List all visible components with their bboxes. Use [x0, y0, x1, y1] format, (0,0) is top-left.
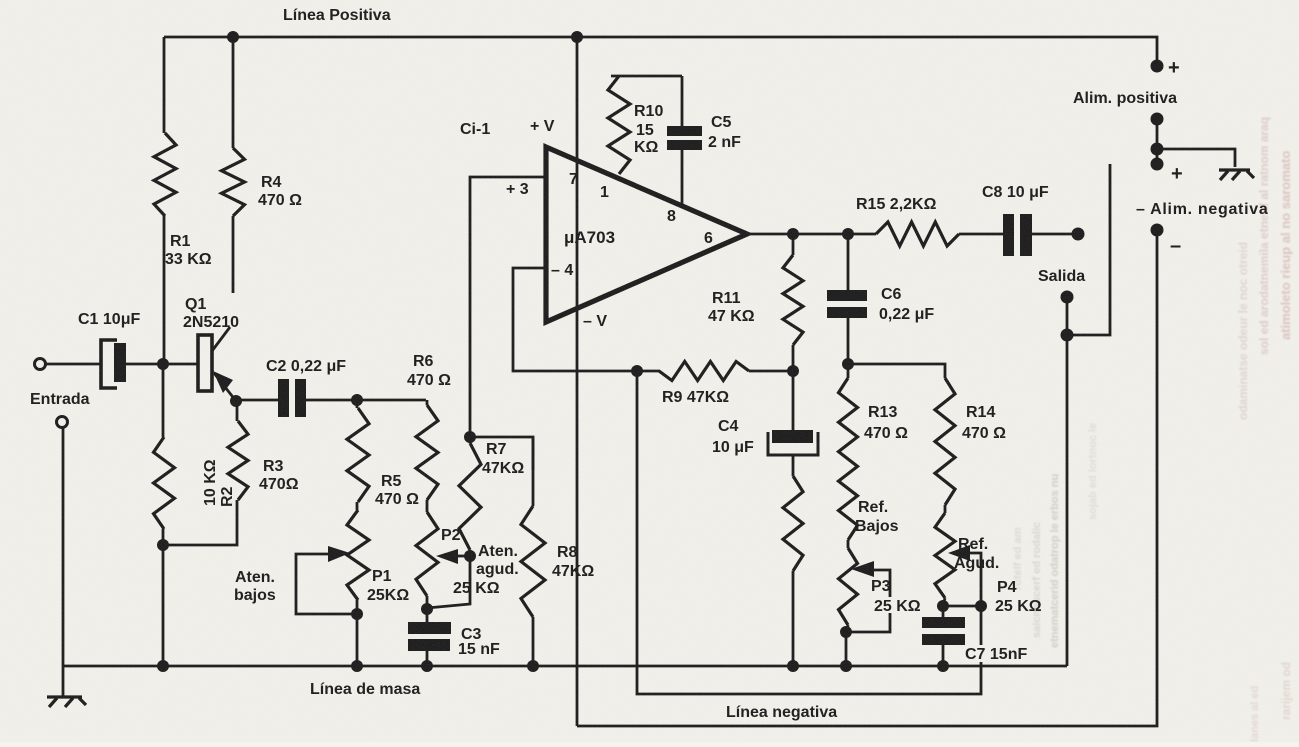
- resistor (below C4): [783, 476, 803, 666]
- label CI-1: [460, 121, 490, 138]
- node: C6/R13 junction: [842, 358, 854, 370]
- label Linea Positiva: [283, 7, 391, 24]
- label P3 value: [872, 597, 938, 615]
- label +V: [530, 118, 555, 135]
- wire: negative supply rail: [577, 230, 1157, 726]
- wire: Salida to supply branch: [1067, 164, 1110, 335]
- svg-text:2 nF: 2 nF: [708, 134, 741, 151]
- svg-text:Q1: Q1: [185, 296, 206, 313]
- svg-text:+: +: [1168, 57, 1180, 79]
- label R6: [407, 353, 451, 389]
- svg-text:R6: R6: [413, 353, 434, 370]
- svg-text:Salida: Salida: [1038, 268, 1085, 285]
- svg-text:R4: R4: [261, 174, 282, 191]
- svg-text:+ V: + V: [530, 118, 555, 135]
- node: R7/P2 wiper junction: [464, 550, 476, 562]
- label R1: [165, 233, 212, 268]
- node: masa/R8: [527, 660, 539, 672]
- label Aten. bajos: [234, 569, 276, 604]
- label R13: [864, 404, 908, 442]
- wire: +3 input (pin 3): [470, 177, 546, 437]
- wire: +V/-V supply line: [576, 37, 579, 726]
- svg-text:saicneucerf ed rodalic: saicneucerf ed rodalic: [1031, 522, 1043, 638]
- wire: negative feedback return (Linea negativa): [637, 371, 981, 694]
- node: P3 bottom junction: [840, 626, 852, 638]
- wire: -4 input (pin 4): [513, 268, 660, 371]
- resistor R3: [228, 401, 248, 500]
- wire: R7top-R8top link: [470, 437, 533, 470]
- label uA703: [564, 228, 615, 247]
- label P1: [367, 568, 409, 604]
- node: P4 wiper junction: [975, 600, 987, 612]
- resistor R2: [154, 364, 175, 666]
- resistor R5: [347, 400, 369, 502]
- svg-text:+: +: [1171, 163, 1183, 185]
- ground symbol (chassis): [1219, 170, 1254, 180]
- label -4: [551, 262, 573, 279]
- svg-text:470 Ω: 470 Ω: [962, 425, 1006, 442]
- svg-text:P1: P1: [372, 568, 392, 585]
- resistor R7: [459, 437, 481, 556]
- svg-text:C8 10 μF: C8 10 μF: [982, 184, 1049, 201]
- svg-text:C1 10μF: C1 10μF: [78, 311, 140, 328]
- svg-text:– V: – V: [583, 313, 607, 330]
- label R5: [375, 473, 419, 508]
- wire: positive supply segment: [1156, 119, 1159, 164]
- ground symbol (Entrada): [47, 697, 86, 707]
- resistor R9: [659, 362, 793, 381]
- node: P1 wiper tie: [351, 608, 363, 620]
- capacitor C8: [959, 214, 1078, 256]
- svg-text:R14: R14: [966, 404, 995, 421]
- label C2: [266, 358, 346, 375]
- svg-text:470 Ω: 470 Ω: [407, 372, 451, 389]
- svg-text:47KΩ: 47KΩ: [482, 460, 524, 477]
- node: output/C6 junction: [842, 228, 854, 240]
- label Entrada: [30, 391, 90, 408]
- node: R2/R3 junction: [157, 539, 169, 551]
- label R10: [634, 103, 663, 156]
- svg-text:Línea de masa: Línea de masa: [310, 681, 420, 698]
- svg-text:Ref.: Ref.: [858, 499, 888, 516]
- node: rail/+V junction: [571, 31, 583, 43]
- svg-text:0,22 μF: 0,22 μF: [879, 306, 934, 323]
- op-amp CI-1 uA703: [546, 147, 747, 322]
- label C1: [78, 311, 140, 328]
- svg-text:μA703: μA703: [564, 228, 615, 247]
- svg-text:10 μF: 10 μF: [712, 439, 754, 456]
- wire: R13-R14 top link: [848, 364, 945, 378]
- resistor R6: [416, 400, 438, 500]
- label + (positive top): [1168, 57, 1180, 79]
- resistor R1: [154, 37, 176, 364]
- svg-text:–: –: [1170, 235, 1181, 257]
- wire: to chassis ground: [1157, 149, 1235, 167]
- label Ref. Bajos: [855, 499, 899, 535]
- svg-text:470Ω: 470Ω: [259, 476, 299, 493]
- terminal: Alim. negativa -: [1151, 224, 1164, 237]
- potentiometer P1: [347, 502, 369, 666]
- wire: op-amp output: [747, 233, 876, 236]
- label R4: [258, 174, 302, 209]
- svg-text:sol ed arodatnemila etneuf al: sol ed arodatnemila etneuf al ratnom ara…: [1257, 117, 1271, 355]
- svg-text:33 KΩ: 33 KΩ: [165, 251, 212, 268]
- svg-text:Aten.: Aten.: [478, 543, 518, 560]
- svg-text:R10: R10: [634, 103, 663, 120]
- label R11: [708, 290, 755, 325]
- capacitor C6: [827, 234, 867, 364]
- wire: R14-P4 bottom link: [943, 605, 981, 608]
- potentiometer P4: [935, 505, 955, 606]
- node: Salida upper: [1061, 291, 1074, 304]
- resistor R4: [222, 37, 245, 293]
- P2 wiper arm: [436, 549, 470, 564]
- node: C2/R5 junction: [351, 394, 363, 406]
- input terminal (to C1): [35, 359, 102, 370]
- label pin6: [704, 230, 713, 247]
- svg-text:470 Ω: 470 Ω: [258, 192, 302, 209]
- transistor Q1 2N5210: [198, 327, 236, 401]
- svg-text:lanes al ed: lanes al ed: [1249, 686, 1261, 742]
- node: output/R11 junction: [787, 228, 799, 240]
- svg-text:+ 3: + 3: [506, 181, 529, 198]
- node: masa/R2: [157, 660, 169, 672]
- svg-text:C6: C6: [881, 286, 902, 303]
- svg-text:P3: P3: [871, 578, 891, 595]
- svg-text:Bajos: Bajos: [855, 518, 899, 535]
- svg-text:47KΩ: 47KΩ: [552, 563, 594, 580]
- label R2 (rotated): [202, 459, 236, 507]
- label P4: [997, 579, 1017, 596]
- svg-text:atimoleto rieup al no saromato: atimoleto rieup al no saromato: [1278, 151, 1293, 340]
- node: supply seg top: [1151, 113, 1164, 126]
- svg-text:25 KΩ: 25 KΩ: [995, 598, 1042, 615]
- label -V: [583, 313, 607, 330]
- capacitor C2: [236, 379, 426, 417]
- svg-text:rarijem od: rarijem od: [1279, 662, 1293, 720]
- node: supply seg low: [1151, 158, 1164, 171]
- label Linea de masa: [310, 681, 420, 698]
- terminal Entrada ground: [57, 417, 68, 428]
- svg-text:R5: R5: [381, 473, 402, 490]
- resistor R10: [608, 76, 682, 174]
- svg-text:R15 2,2KΩ: R15 2,2KΩ: [856, 196, 937, 213]
- label R15: [856, 196, 937, 213]
- svg-text:R11: R11: [712, 290, 741, 307]
- label pin1: [600, 184, 609, 201]
- resistor R8: [521, 437, 545, 666]
- label Ref. Agud.: [954, 536, 999, 572]
- capacitor C3: [408, 609, 451, 666]
- svg-text:470 Ω: 470 Ω: [375, 491, 419, 508]
- svg-text:bajos: bajos: [234, 587, 276, 604]
- label - (negative): [1170, 235, 1181, 257]
- svg-text:odaminatse odeur le noc otreid: odaminatse odeur le noc otreid: [1236, 242, 1250, 420]
- P3 wiper arm: [847, 561, 890, 632]
- label P4 value: [995, 598, 1042, 615]
- node: rail/R4 junction: [227, 31, 239, 43]
- label pin8: [667, 208, 676, 225]
- label Q1: [183, 296, 239, 331]
- node: R14 bottom junction: [937, 600, 949, 612]
- svg-text:C5: C5: [711, 114, 732, 131]
- label Linea negativa: [726, 704, 837, 721]
- svg-text:15: 15: [636, 122, 654, 139]
- svg-text:KΩ: KΩ: [634, 139, 659, 156]
- label Alim. positiva: [1073, 90, 1177, 107]
- label C8: [982, 184, 1049, 201]
- svg-text:10 KΩ: 10 KΩ: [202, 459, 219, 506]
- node: masa/C7: [937, 660, 949, 672]
- svg-text:– 4: – 4: [551, 262, 573, 279]
- label Alim. negativa: [1136, 201, 1268, 218]
- label P2: [441, 527, 461, 544]
- resistor R15: [876, 222, 959, 246]
- svg-text:C4: C4: [718, 418, 739, 435]
- node: Q1 emitter junction: [230, 395, 242, 407]
- node: R11/C4 junction: [787, 365, 799, 377]
- label C3: [458, 626, 500, 658]
- wire: Entrada ground drop: [62, 428, 65, 697]
- svg-text:sojab ed lortnoc le: sojab ed lortnoc le: [1087, 423, 1099, 520]
- svg-text:R3: R3: [263, 458, 284, 475]
- node: P2/C3 junction: [421, 603, 433, 615]
- capacitor C5: [667, 76, 702, 206]
- node: masa/P3: [840, 660, 852, 672]
- resistor R11: [783, 234, 803, 371]
- label P3: [871, 578, 891, 595]
- svg-text:15 nF: 15 nF: [458, 641, 500, 658]
- label Aten. agud.: [476, 543, 519, 578]
- svg-text:470 Ω: 470 Ω: [864, 425, 908, 442]
- label +3: [506, 181, 529, 198]
- label C4: [712, 418, 754, 456]
- svg-text:Ci-1: Ci-1: [460, 121, 490, 138]
- label pin7: [569, 171, 578, 188]
- wire: Salida drop: [1066, 297, 1069, 666]
- node: masa/R12: [787, 660, 799, 672]
- node: Salida lower: [1061, 329, 1074, 342]
- svg-text:2N5210: 2N5210: [183, 314, 239, 331]
- potentiometer P2: [416, 500, 438, 609]
- label C5: [708, 114, 741, 151]
- svg-text:R13: R13: [868, 404, 897, 421]
- label R8: [552, 544, 594, 580]
- wire: P4 node to negativa: [980, 606, 983, 645]
- node: masa/C3: [421, 660, 433, 672]
- svg-text:Entrada: Entrada: [30, 391, 90, 408]
- svg-text:Línea negativa: Línea negativa: [726, 704, 837, 721]
- svg-text:25 KΩ: 25 KΩ: [453, 580, 500, 597]
- svg-text:25 KΩ: 25 KΩ: [874, 598, 921, 615]
- label R9: [662, 389, 729, 406]
- node: Q1 base junction: [157, 358, 169, 370]
- label C7: [963, 645, 1035, 663]
- node: masa/P1: [351, 660, 363, 672]
- svg-text:R1: R1: [170, 233, 191, 250]
- label P2 value: [450, 578, 508, 597]
- svg-text:– Alim. negativa: – Alim. negativa: [1136, 201, 1268, 218]
- node: R9 left junction: [631, 365, 643, 377]
- label C6: [879, 286, 934, 323]
- terminal: C8 output: [1072, 228, 1085, 241]
- svg-text:6: 6: [704, 230, 713, 247]
- wire: P2 wiper to bottom: [427, 556, 470, 608]
- label + (negative block): [1171, 163, 1183, 185]
- svg-text:Alim. positiva: Alim. positiva: [1073, 90, 1177, 107]
- svg-text:25KΩ: 25KΩ: [367, 587, 409, 604]
- terminal: Alim. positiva +: [1151, 60, 1164, 73]
- wire: P3 to ground: [845, 632, 848, 666]
- node: supply seg mid: [1151, 143, 1164, 156]
- svg-text:R8: R8: [557, 544, 578, 561]
- capacitor C1: [101, 340, 198, 388]
- svg-text:1: 1: [600, 184, 609, 201]
- label R7: [482, 441, 524, 477]
- svg-text:8: 8: [667, 208, 676, 225]
- svg-text:47 KΩ: 47 KΩ: [708, 308, 755, 325]
- P1 wiper arm: [296, 546, 357, 614]
- label Salida: [1038, 268, 1085, 285]
- wire: R2-R3 link: [163, 500, 237, 545]
- capacitor C4: [768, 371, 818, 476]
- resistor R13: [839, 364, 858, 540]
- potentiometer P3: [839, 540, 858, 632]
- P4 wiper arm: [948, 545, 981, 606]
- label R14: [962, 404, 1006, 442]
- svg-text:Línea Positiva: Línea Positiva: [283, 7, 391, 24]
- svg-text:C2 0,22 μF: C2 0,22 μF: [266, 358, 346, 375]
- svg-text:R9 47KΩ: R9 47KΩ: [662, 389, 729, 406]
- node: R7 top junction: [464, 431, 476, 443]
- svg-text:R7: R7: [486, 441, 507, 458]
- capacitor C7: [922, 606, 965, 666]
- wire: Linea de masa (ground line): [62, 665, 1067, 668]
- svg-text:P4: P4: [997, 579, 1017, 596]
- svg-text:etnematcerid odatrop le erbos: etnematcerid odatrop le erbos nu: [1049, 474, 1061, 648]
- svg-text:C7 15nF: C7 15nF: [965, 646, 1027, 663]
- wire: Linea Positiva top rail: [164, 37, 1157, 66]
- resistor R14: [935, 378, 955, 505]
- label R3: [259, 458, 299, 493]
- svg-text:R2: R2: [219, 486, 236, 507]
- svg-text:Aten.: Aten.: [235, 569, 275, 586]
- svg-text:agud.: agud.: [476, 561, 519, 578]
